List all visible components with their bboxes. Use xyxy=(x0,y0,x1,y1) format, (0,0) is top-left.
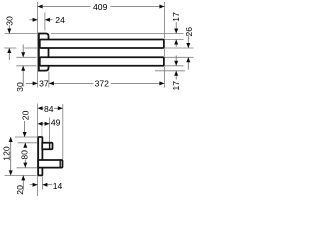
wire: wall face extension line (side view) xyxy=(37,104,39,197)
dimension 120 xyxy=(10,137,12,175)
wire: wall face extension line (top view) xyxy=(37,2,39,88)
wire: root top extension line y=33.9 xyxy=(5,33,38,35)
svg-text:372: 372 xyxy=(95,79,110,89)
wire: foot bottom extension y=175.4 xyxy=(5,174,37,176)
bar cross-section cap on lower arm xyxy=(59,160,61,168)
svg-text:20: 20 xyxy=(15,185,25,195)
mount plate root block (top view) xyxy=(39,34,49,71)
dimension 30 lower-left xyxy=(22,45,24,58)
svg-text:37: 37 xyxy=(39,79,49,89)
dimension 26 right xyxy=(187,35,189,49)
wire: extension x=49.6 for dim 49 xyxy=(49,118,51,143)
bar cross-section cap on upper arm xyxy=(49,143,51,149)
wire: extension x=62.8 for dim 84 xyxy=(62,104,64,159)
svg-text:120: 120 xyxy=(1,146,11,161)
svg-text:409: 409 xyxy=(93,2,108,12)
dimension 20 top (side view) xyxy=(24,121,26,137)
wire: arm bottom extension y=167.8 xyxy=(17,167,38,169)
dimension 409 xyxy=(38,6,91,8)
upper pivot arm (side view) xyxy=(42,143,52,149)
wire: arm top extension y=142.8 xyxy=(18,142,41,144)
svg-text:84: 84 xyxy=(44,104,54,114)
svg-text:14: 14 xyxy=(53,181,63,191)
lower pivot arm (side view) xyxy=(38,160,62,168)
dimension 49 xyxy=(38,123,50,125)
svg-text:24: 24 xyxy=(55,15,65,25)
dimension 14 xyxy=(30,184,38,186)
wire: bar1 bottom extension left y=48 xyxy=(4,47,16,49)
svg-text:49: 49 xyxy=(51,118,61,128)
wire: root bottom extension right y=70.2 xyxy=(155,70,185,72)
dimension 30 upper-left xyxy=(8,25,10,33)
svg-text:17: 17 xyxy=(171,12,181,22)
wall plate (side view) xyxy=(38,137,42,175)
wire: extension x=42.4 for dim 14 xyxy=(41,177,43,190)
towel bar 1 (top view) xyxy=(40,40,164,49)
dimension 17 upper-right xyxy=(175,22,177,34)
wire: extension line x=44.9 for dim 24 xyxy=(44,13,46,31)
wire: extension x=41.9 above plate top xyxy=(41,124,43,137)
wire: bar2 bottom extension left y=65.8 xyxy=(16,65,36,67)
wire: bar-end extension line x=164.4 xyxy=(163,2,165,39)
svg-text:30: 30 xyxy=(5,16,15,26)
svg-text:17: 17 xyxy=(171,81,181,91)
dimension 37 xyxy=(26,82,38,84)
svg-text:26: 26 xyxy=(184,27,194,37)
dimension 372 xyxy=(49,82,94,84)
wire: bar2 bottom extension right y=65.8 xyxy=(164,65,183,67)
svg-text:30: 30 xyxy=(15,82,25,92)
svg-text:20: 20 xyxy=(20,110,30,120)
dimension 17 lower-right xyxy=(175,56,177,66)
wire: extension line x=48.9 for dim 37/372 xyxy=(48,72,50,88)
towel bar 2 (top view) xyxy=(40,57,164,66)
wire: bar2 top extension left y=57.3 xyxy=(16,56,36,58)
wire: bar1 bottom extension right y=48 xyxy=(164,47,193,49)
wire: bar1 top extension right y=39.5 xyxy=(164,39,183,41)
dimension 80 xyxy=(24,143,26,148)
wire: plate top extension y=137 xyxy=(15,136,37,138)
wire: bar2 top extension right y=57.3 xyxy=(164,56,193,58)
svg-text:80: 80 xyxy=(20,150,30,160)
dimension 20 bottom (side view) xyxy=(22,175,24,190)
dimension 84 xyxy=(38,107,44,109)
dimension 24 xyxy=(30,19,38,21)
